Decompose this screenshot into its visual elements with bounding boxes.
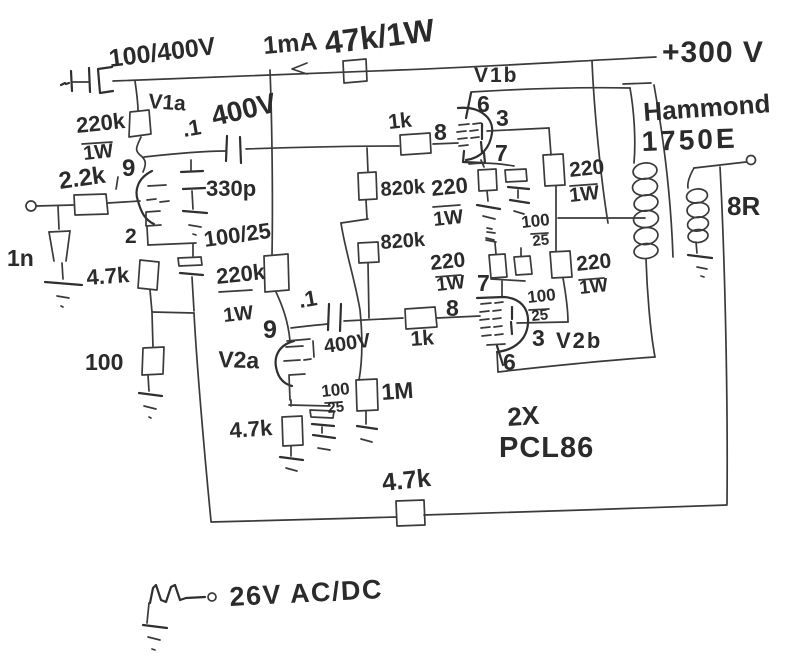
svg-text:25: 25: [531, 306, 549, 325]
svg-text:1W: 1W: [82, 140, 114, 165]
svg-text:25: 25: [532, 231, 550, 250]
svg-text:25: 25: [327, 398, 345, 417]
svg-text:220k: 220k: [75, 108, 127, 138]
svg-text:8: 8: [434, 119, 447, 145]
svg-text:100: 100: [520, 210, 550, 232]
svg-text:1W: 1W: [435, 272, 466, 296]
svg-text:V2b: V2b: [556, 328, 602, 353]
svg-text:1750E: 1750E: [641, 123, 738, 157]
svg-text:7: 7: [477, 270, 490, 296]
svg-text:V1b: V1b: [474, 64, 519, 87]
svg-text:3: 3: [532, 325, 545, 351]
svg-text:6: 6: [477, 91, 490, 117]
svg-text:820k: 820k: [380, 176, 427, 201]
svg-text:4.7k: 4.7k: [381, 464, 432, 497]
svg-text:3: 3: [496, 105, 509, 131]
svg-text:4.7k: 4.7k: [229, 415, 274, 443]
svg-text:V2a: V2a: [218, 346, 260, 373]
svg-text:1W: 1W: [568, 182, 600, 207]
svg-text:220k: 220k: [215, 259, 267, 289]
svg-text:1W: 1W: [578, 275, 609, 299]
svg-text:1n: 1n: [7, 245, 34, 271]
svg-text:2X: 2X: [506, 400, 540, 432]
svg-text:9: 9: [263, 316, 277, 344]
svg-text:100: 100: [320, 379, 350, 401]
svg-text:100: 100: [85, 349, 123, 375]
svg-text:100: 100: [526, 285, 556, 307]
svg-text:1mA: 1mA: [262, 27, 318, 60]
svg-text:1k: 1k: [410, 326, 435, 351]
svg-text:1M: 1M: [381, 377, 415, 405]
svg-text:9: 9: [122, 155, 135, 182]
svg-text:2: 2: [125, 225, 137, 248]
svg-text:+300 V: +300 V: [662, 36, 764, 69]
svg-text:220: 220: [568, 155, 605, 182]
svg-text:PCL86: PCL86: [499, 432, 594, 464]
svg-text:4.7k: 4.7k: [86, 262, 131, 290]
svg-text:8R: 8R: [727, 191, 760, 221]
svg-text:820k: 820k: [380, 229, 427, 254]
svg-text:1W: 1W: [432, 206, 464, 231]
svg-text:220: 220: [429, 248, 466, 275]
svg-text:220: 220: [575, 249, 612, 276]
svg-text:1k: 1k: [387, 109, 413, 134]
svg-text:220: 220: [430, 172, 469, 201]
svg-text:7: 7: [495, 140, 508, 166]
svg-text:V1a: V1a: [148, 90, 187, 116]
svg-text:6: 6: [503, 349, 516, 375]
svg-text:1W: 1W: [222, 302, 254, 327]
svg-text:330p: 330p: [206, 176, 256, 201]
svg-text:8: 8: [446, 295, 459, 321]
